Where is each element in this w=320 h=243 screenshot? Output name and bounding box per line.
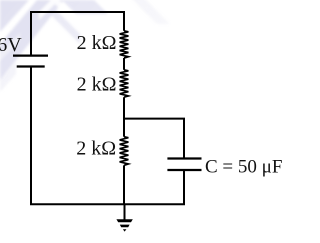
svg-text:2 kΩ: 2 kΩ <box>76 137 116 159</box>
svg-text:C = 50 μF: C = 50 μF <box>205 156 282 177</box>
svg-text:2 kΩ: 2 kΩ <box>77 32 117 54</box>
svg-text:6V: 6V <box>0 34 22 56</box>
svg-text:2 kΩ: 2 kΩ <box>77 73 117 95</box>
